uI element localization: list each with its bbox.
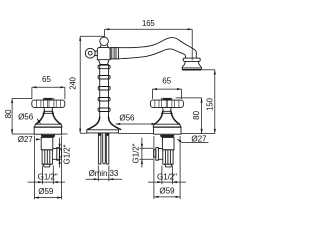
dim Ø59 right <box>154 136 180 199</box>
column beads <box>98 65 110 111</box>
dim 65 right <box>152 77 181 99</box>
svg-text:Ø27: Ø27 <box>18 135 34 144</box>
spout column finial ball <box>100 37 109 47</box>
dim 240 <box>68 36 104 133</box>
svg-text:150: 150 <box>205 98 214 111</box>
left valve body <box>41 137 53 149</box>
svg-text:Ø56: Ø56 <box>18 112 34 121</box>
spout hub body <box>97 47 110 59</box>
left handle cross bar <box>32 100 65 107</box>
mounting studs <box>98 133 109 164</box>
label Ø27 right <box>177 134 209 143</box>
dim G1/2 left tail <box>28 166 66 185</box>
dim 150 <box>202 70 216 134</box>
decorative side ring <box>85 48 97 58</box>
dim 165 <box>105 19 193 60</box>
svg-text:G1/2": G1/2" <box>38 173 58 182</box>
svg-text:65: 65 <box>42 75 51 84</box>
spout curved tube <box>118 38 196 59</box>
dim Ø59 left <box>34 136 61 200</box>
right threaded tail <box>163 150 173 167</box>
svg-text:Ømin.33: Ømin.33 <box>89 169 119 178</box>
svg-text:80: 80 <box>4 109 13 118</box>
spout outlet bell <box>182 61 201 69</box>
dim G1/2 right side outlet <box>132 138 154 168</box>
column shaft <box>100 65 109 118</box>
spout outlet centerline <box>0 0 1 1</box>
left handle boss <box>43 98 54 107</box>
dim G1/2 right tail <box>148 166 186 185</box>
left escutcheon bell <box>34 111 62 127</box>
svg-text:165: 165 <box>142 19 155 28</box>
column base bell <box>87 117 121 133</box>
left escutcheon flange <box>34 127 61 134</box>
right valve body <box>162 137 174 149</box>
svg-text:Ø59: Ø59 <box>159 187 175 196</box>
spout outlet collar <box>183 58 200 61</box>
left valve neck <box>41 135 55 138</box>
deck line left <box>12 133 68 135</box>
right handle boss <box>161 98 172 107</box>
svg-text:240: 240 <box>68 77 77 90</box>
deck line center <box>80 132 153 134</box>
label Ø27 left <box>18 135 41 144</box>
left handle stem <box>44 107 53 111</box>
dim 80 left <box>4 98 31 134</box>
svg-text:G1/2": G1/2" <box>132 143 141 163</box>
right handle cross bar <box>150 100 183 107</box>
right handle stem <box>163 107 172 111</box>
label Ø56 center <box>116 114 156 126</box>
deck line right <box>181 133 215 135</box>
left side outlet <box>53 148 62 161</box>
spout ring block <box>110 48 118 59</box>
left threaded tail <box>42 150 52 167</box>
svg-text:G1/2": G1/2" <box>63 144 72 164</box>
right side outlet <box>154 148 163 161</box>
center supply tube <box>103 133 106 164</box>
svg-text:G1/2": G1/2" <box>157 173 177 182</box>
svg-text:Ø59: Ø59 <box>38 187 54 196</box>
label Ø56 left <box>18 112 41 124</box>
dim 65 left <box>32 75 65 100</box>
dim 80 right <box>176 98 203 134</box>
svg-text:80: 80 <box>192 110 201 119</box>
column hub skirt <box>98 60 109 65</box>
right escutcheon flange <box>154 127 181 134</box>
dim G1/2 left side outlet <box>57 138 71 168</box>
dim Ømin.33 <box>86 166 123 182</box>
right handle (mirror of left) <box>150 98 183 167</box>
svg-text:65: 65 <box>162 77 171 86</box>
right valve neck <box>160 135 174 138</box>
right escutcheon bell <box>153 111 181 127</box>
svg-text:Ø56: Ø56 <box>119 114 135 123</box>
